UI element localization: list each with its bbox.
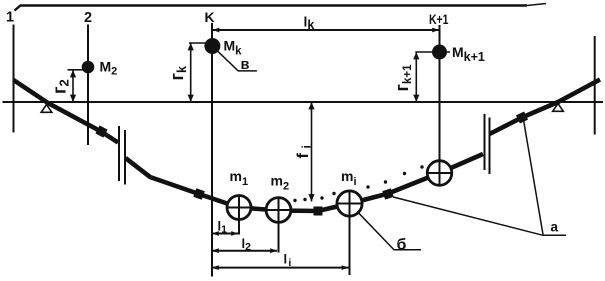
svg-text:гk+1: гk+1 [392, 64, 414, 92]
top reference line [15, 6, 528, 11]
dimension l2 [212, 250, 277, 252]
open circle cross [428, 172, 452, 174]
svg-text:l2: l2 [242, 236, 252, 253]
svg-text:2: 2 [84, 10, 92, 26]
pointer a shallow [393, 197, 566, 235]
smooth curve dots [293, 165, 423, 202]
break mark left [118, 126, 120, 181]
dimension l1 [212, 233, 238, 235]
point m1 circle [227, 196, 251, 220]
cable middle segment [126, 154, 484, 211]
svg-text:г2: г2 [50, 79, 72, 94]
vertical line 1 [13, 25, 15, 133]
point m2 circle [266, 198, 291, 223]
dimension l_i [212, 267, 349, 269]
svg-text:б: б [397, 237, 407, 254]
vertical line right support [594, 36, 596, 135]
pointer v [218, 51, 257, 71]
svg-text:K: K [205, 9, 215, 25]
dimension rk+1 [415, 51, 450, 53]
cable marker square S5 [516, 111, 528, 123]
cable marker square S1 [95, 125, 107, 137]
svg-text:K+1: K+1 [429, 11, 449, 27]
cable marker square S4 [382, 188, 393, 199]
ground triangle left [41, 105, 52, 113]
break mark right [484, 114, 486, 170]
vertical line 2 [87, 25, 89, 146]
cable marker square S3 [314, 207, 323, 216]
svg-text:Mk+1: Mk+1 [452, 44, 485, 64]
dimension f_i [311, 102, 313, 202]
datum horizontal line [3, 101, 604, 103]
point M2 [82, 61, 95, 74]
point mi circle [337, 191, 362, 216]
svg-text:в: в [241, 57, 250, 73]
svg-text:i: i [300, 145, 314, 148]
svg-text:l1: l1 [218, 219, 228, 236]
svg-text:M2: M2 [100, 59, 118, 78]
cable left segment [14, 80, 119, 143]
dimension l_k [213, 29, 440, 31]
svg-text:1: 1 [6, 10, 14, 26]
dimension r2 [68, 69, 88, 71]
svg-text:mi: mi [341, 168, 357, 188]
svg-text:Mk: Mk [224, 38, 243, 58]
point Mk+1 [432, 45, 447, 60]
svg-text:lk: lk [304, 14, 315, 33]
vertical line K [211, 23, 213, 277]
m1 cross [227, 207, 251, 209]
ground triangle right [553, 104, 564, 112]
mi cross [337, 203, 362, 205]
dimension rk [189, 42, 208, 44]
point Mk [204, 38, 220, 54]
svg-text:m2: m2 [271, 173, 290, 193]
cable marker square S2 [193, 188, 205, 200]
cable right segment [490, 80, 601, 135]
pointer b [357, 211, 421, 250]
svg-text:m1: m1 [230, 168, 249, 188]
top reference line tail [527, 4, 546, 6]
svg-text:гk: гk [167, 66, 189, 81]
point near K+1 open circle [427, 161, 452, 186]
svg-text:f: f [295, 153, 312, 159]
vertical line K+1 [439, 25, 441, 162]
svg-text:li: li [284, 252, 292, 270]
svg-text:a: a [551, 220, 559, 235]
pointer a steep [524, 121, 543, 235]
m2 cross [266, 209, 291, 211]
